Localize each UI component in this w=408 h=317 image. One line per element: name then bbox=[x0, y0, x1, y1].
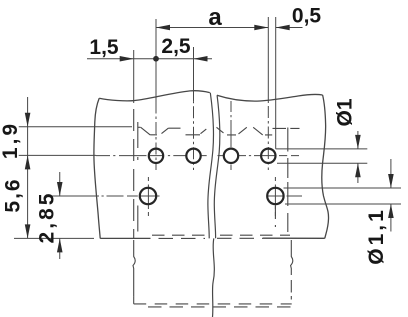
left reference line bottom level bbox=[14, 237, 94, 239]
hole pin4 row1 bbox=[261, 149, 275, 163]
dimension a line bbox=[156, 27, 268, 29]
left reference line chevron level bbox=[19, 126, 132, 128]
dimension Ø1,1 bottom extension line bbox=[285, 203, 401, 205]
housing bottom edge lower dashed line bbox=[144, 306, 296, 308]
housing funnel V pin3 (dashed fragments) bbox=[217, 127, 247, 135]
dimension line 1,9 / 5,6 vertical bbox=[27, 97, 29, 238]
svg-text:2,85: 2,85 bbox=[36, 191, 59, 244]
svg-text:Ø1: Ø1 bbox=[334, 98, 357, 126]
break line left (wavy) bbox=[208, 93, 214, 239]
housing right edge hidden (dashed with break kink) bbox=[291, 240, 293, 300]
arrow 5,6 bottom (down) bbox=[25, 224, 31, 238]
svg-text:2,5: 2,5 bbox=[161, 35, 191, 58]
arrow 1,9 top (down) bbox=[25, 113, 31, 127]
arrow 2,5 outside bbox=[194, 56, 208, 62]
hidden line below right mount hole bbox=[274, 206, 276, 227]
dimension 0,5 tail and arrow bbox=[276, 27, 303, 29]
dimension Ø1 bottom extension line bbox=[277, 162, 367, 164]
left reference line row1 level bbox=[19, 154, 96, 156]
housing left wall inner line (dashed) bbox=[137, 122, 139, 232]
housing left edge hidden (dashed with break kink) bbox=[133, 240, 135, 297]
extension line 1,5 (housing left) bbox=[133, 50, 135, 103]
centerline right mount hole vertical bbox=[274, 177, 276, 216]
centerline left mount hole vertical bbox=[147, 177, 149, 216]
dimension Ø1,1 top extension line bbox=[284, 187, 402, 189]
board left piece bottom edge solid bbox=[100, 237, 150, 239]
arrow 1,5 outside bbox=[120, 56, 134, 62]
housing bottom edge upper dashed line bbox=[134, 303, 292, 305]
board right piece right edge bbox=[322, 95, 329, 238]
dimension line 1,5 / 2,5 bbox=[87, 58, 212, 60]
board right piece bottom edge solid bbox=[263, 237, 325, 239]
board left piece top edge bbox=[99, 91, 210, 101]
housing funnel V pin4 (dashed fragments) bbox=[253, 127, 272, 135]
housing left bottom corner bbox=[133, 297, 135, 304]
hole pin2 row1 bbox=[186, 149, 200, 163]
centerline pin4 vertical bbox=[267, 17, 269, 101]
housing left edge upper (dashed) bbox=[133, 103, 135, 238]
housing funnel left end dash bbox=[138, 126, 141, 128]
svg-text:5,6: 5,6 bbox=[2, 177, 25, 212]
housing right wall top dashes bbox=[273, 127, 300, 129]
housing funnel V pin1 (dashed fragments) bbox=[141, 127, 181, 135]
dimension Ø1 top extension line bbox=[276, 148, 368, 150]
mount hole left row2 bbox=[140, 188, 156, 204]
centerline pin3 vertical bbox=[230, 101, 232, 170]
dimension a right arrow bbox=[254, 25, 268, 31]
dimension Ø1,1 arrows bbox=[390, 159, 392, 188]
left reference line row2 level bbox=[49, 195, 96, 197]
housing funnel V pin2 (dashed fragments) bbox=[186, 129, 207, 135]
centerline row2 horizontal (dash-dot segments) bbox=[96, 195, 302, 197]
board right piece top edge bbox=[217, 94, 323, 101]
svg-text:1,9: 1,9 bbox=[0, 121, 22, 159]
board left piece outline bbox=[94, 98, 100, 238]
centerline row1 horizontal (dash-dot segments) bbox=[96, 155, 299, 157]
board bottom edge hidden under housing (dashed) bbox=[159, 237, 264, 239]
svg-text:1,5: 1,5 bbox=[89, 36, 119, 59]
dimension Ø1 arrows bbox=[357, 131, 359, 149]
hole pin1 row1 bbox=[149, 149, 163, 163]
mount hole right row2 bbox=[267, 188, 283, 204]
break line lower continuation (wavy) bbox=[213, 238, 215, 317]
dimension 2,85 lower line and arrow bbox=[59, 238, 61, 259]
housing front edge hidden (dashed) bbox=[152, 234, 290, 236]
dimension 2,85 upper line and arrow bbox=[59, 172, 61, 196]
junction dot pin1 bbox=[153, 56, 159, 62]
arrow 1,9/5,6 shared (up) bbox=[25, 155, 31, 169]
svg-text:0,5: 0,5 bbox=[292, 5, 322, 28]
hole pin3 row1 bbox=[224, 149, 238, 163]
svg-text:Ø1,1: Ø1,1 bbox=[365, 207, 388, 265]
dimension a left arrow bbox=[156, 25, 170, 31]
housing right wall vertical bbox=[287, 128, 289, 233]
break line right (wavy) bbox=[214, 95, 220, 238]
centerline pin1 vertical bbox=[155, 19, 157, 102]
svg-text:a: a bbox=[208, 4, 222, 31]
centerline pin2 vertical bbox=[193, 47, 195, 101]
extension line 0,5 right bbox=[275, 17, 277, 149]
